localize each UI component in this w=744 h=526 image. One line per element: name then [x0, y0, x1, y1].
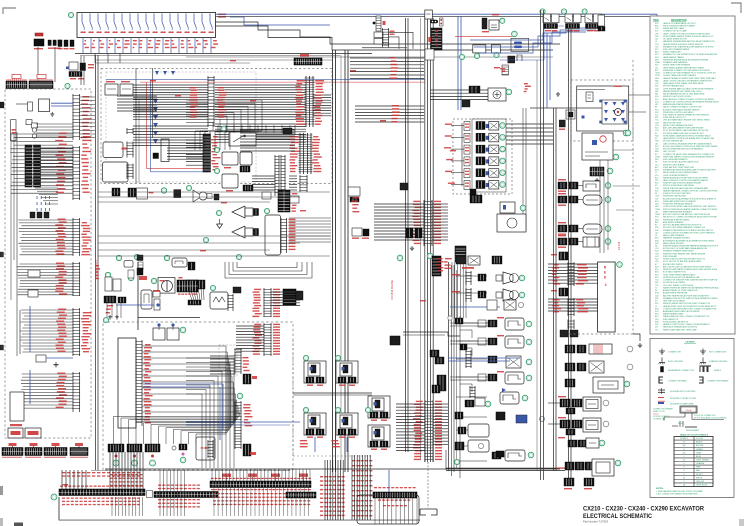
svg-text:LAMP CONNECTOR SWITCH SWING PU: LAMP CONNECTOR SWITCH SWING PUMP BUZZER [663, 32, 710, 35]
svg-text:WATER SENSOR LIGHT CONNECTOR B: WATER SENSOR LIGHT CONNECTOR BATTERY OIL [663, 315, 709, 318]
svg-text:MAIN ENGINE STARTER ENGINE: MAIN ENGINE STARTER ENGINE [663, 103, 693, 106]
svg-text:CONNECTOR VALVE TEMP SPEAKER B: CONNECTOR VALVE TEMP SPEAKER BOX CONNECT… [663, 153, 714, 156]
svg-text:VALVE AUX SPEAKER AUX SOLENOID: VALVE AUX SPEAKER AUX SOLENOID [663, 326, 698, 329]
svg-text:WHITE: WHITE [696, 477, 703, 479]
svg-text:PILOT BOOM WATER CAB PUMP ARM: PILOT BOOM WATER CAB PUMP ARM UNIT BOOM [663, 129, 708, 132]
svg-text:HARNESS SPEAKER ARM BATTERY AI: HARNESS SPEAKER ARM BATTERY AIR ALTERNAT… [663, 40, 715, 43]
svg-text:FUSE BUZZER CAB MOTOR: FUSE BUZZER CAB MOTOR [663, 320, 689, 323]
svg-text:HEATER HARNESS CONNECTOR FUEL: HEATER HARNESS CONNECTOR FUEL CONTROLLER… [663, 189, 718, 192]
svg-text:PILOT MOTOR OIL BATTERY ALARM: PILOT MOTOR OIL BATTERY ALARM LAMP [663, 260, 702, 263]
svg-text:SYMBOL: SYMBOL [680, 438, 688, 440]
svg-text:RELAY SENSOR LIGHT SENSOR MAIN: RELAY SENSOR LIGHT SENSOR MAIN [663, 171, 698, 174]
svg-text:AIR CONTROLLER OIL BATTERY REL: AIR CONTROLLER OIL BATTERY RELAY TEMP SW… [663, 265, 712, 268]
svg-text:AB 0434 HARN: AB 0434 HARN [94, 260, 98, 278]
svg-text:CONTROLLER PRESSURE LIGHT CONN: CONTROLLER PRESSURE LIGHT CONNECTOR MAIN… [663, 307, 717, 310]
svg-text:SENSOR LAMP WATER STARTER AUX: SENSOR LAMP WATER STARTER AUX PUMP BUZZE… [663, 268, 718, 271]
svg-text:HORN BOX BOX MOTOR HARNESS CAB: HORN BOX BOX MOTOR HARNESS CAB [663, 276, 700, 279]
svg-text:RELAY LIGHT HARNESS BUZZER: RELAY LIGHT HARNESS BUZZER [663, 124, 693, 127]
svg-text:WATER LAMP MAIN UNIT TEMP LAMP: WATER LAMP MAIN UNIT TEMP LAMP [663, 328, 698, 331]
svg-text:PRESSURE ENGINE RELAY ALTERNAT: PRESSURE ENGINE RELAY ALTERNATOR ENGINE [663, 58, 709, 61]
svg-text:WIPER TEMP TEMP SPEAKER: WIPER TEMP TEMP SPEAKER [663, 64, 691, 67]
svg-text:HEATER CONTROLLER CONNECTOR AL: HEATER CONTROLLER CONNECTOR ALTERNATOR [663, 323, 710, 326]
svg-text:SWITCH FUSE RELAY CAB SWING: SWITCH FUSE RELAY CAB SWING [663, 184, 694, 187]
svg-text:UNIT UNIT BOOM VALVE: UNIT UNIT BOOM VALVE [663, 300, 686, 303]
svg-text:CONNECTOR FEMALE: CONNECTOR FEMALE [707, 380, 729, 383]
svg-text:2. ALL CONNECTORS VIEWED FROM: 2. ALL CONNECTORS VIEWED FROM WIRE SIDE [656, 492, 698, 495]
svg-text:MOTOR CAB ARM SENSOR BOOM MOTO: MOTOR CAB ARM SENSOR BOOM MOTOR [663, 224, 702, 227]
svg-text:CONNECTOR MALE: CONNECTOR MALE [668, 380, 688, 383]
svg-text:RADIO LAMP SPEAKER: RADIO LAMP SPEAKER [663, 234, 685, 237]
svg-text:IN-HARNESS CONNECTOR: IN-HARNESS CONNECTOR [668, 369, 694, 372]
svg-text:WATER HEATER LAMP: WATER HEATER LAMP [663, 313, 684, 316]
svg-text:CD 0816 FRAME: CD 0816 FRAME [390, 280, 394, 300]
svg-text:NOT CONNECTED: NOT CONNECTED [709, 352, 727, 354]
svg-text:BATTERY HEATER RELAY PUMP SWIT: BATTERY HEATER RELAY PUMP SWITCH BATTERY [663, 294, 710, 297]
svg-text:1. WIRE HARNESS MAIN GROUND PO: 1. WIRE HARNESS MAIN GROUND POINTS ON FR… [656, 490, 703, 493]
svg-text:XX XX: XX XX [678, 423, 684, 425]
svg-text:CONNECTOR STARTER FUEL STARTER: CONNECTOR STARTER FUEL STARTER BATTERY P… [663, 279, 718, 282]
svg-text:MOTOR STARTER AIR: MOTOR STARTER AIR [663, 140, 683, 143]
svg-text:RELAY HARNESS BOOM OIL UNIT AR: RELAY HARNESS BOOM OIL UNIT ARM RELAY [663, 93, 705, 96]
svg-text:PUMP RELAY UNIT PILOT: PUMP RELAY UNIT PILOT [663, 116, 687, 119]
svg-text:LAMP VALVE FUSE TRAVEL UNIT AR: LAMP VALVE FUSE TRAVEL UNIT ARM VALVE [663, 82, 704, 85]
svg-text:Y15: Y15 [655, 329, 658, 331]
svg-text:VIOLET: VIOLET [696, 474, 704, 476]
svg-text:NOTES:: NOTES: [656, 488, 664, 490]
svg-text:OUTSIDE CAB: OUTSIDE CAB [653, 418, 666, 421]
svg-text:SPEAKER PILOT ALTERNATOR MOTOR: SPEAKER PILOT ALTERNATOR MOTOR SENSOR AL… [663, 53, 718, 56]
svg-text:LIGHT GREEN: LIGHT GREEN [696, 460, 709, 462]
svg-text:RELAY PILOT CONNECTOR SENSOR R: RELAY PILOT CONNECTOR SENSOR RELAY SWITC… [663, 216, 717, 219]
svg-text:HORN TRAVEL HEATER SWING SOLEN: HORN TRAVEL HEATER SWING SOLENOID VALVE … [663, 35, 715, 38]
svg-text:RED: RED [696, 470, 701, 472]
svg-text:(IF NOT INDICATED COLOR IS WHI: (IF NOT INDICATED COLOR IS WHITE) [694, 417, 727, 420]
svg-text:BUZZER SWITCH ALTERNATOR SOLEN: BUZZER SWITCH ALTERNATOR SOLENOID BOX AL… [663, 197, 717, 200]
svg-text:LAMP HEATER TRAVEL: LAMP HEATER TRAVEL [663, 56, 684, 59]
svg-text:MOTOR WIPER BATTERY MOTOR HARN: MOTOR WIPER BATTERY MOTOR HARNESS [663, 148, 704, 151]
svg-text:HEATER PUMP LIGHT BOOM BATTERY: HEATER PUMP LIGHT BOOM BATTERY HORN VALV… [663, 305, 717, 308]
svg-text:GREEN: GREEN [696, 449, 703, 451]
svg-text:ISOLATED BODY GROUND: ISOLATED BODY GROUND [670, 390, 696, 393]
svg-text:WIRE NUMBER: WIRE NUMBER [686, 430, 700, 432]
svg-text:SHIELD: SHIELD [714, 370, 722, 372]
svg-text:VALVE CONNECTOR RADIO CONTROLL: VALVE CONNECTOR RADIO CONTROLLER [663, 106, 702, 109]
svg-text:FUEL UNIT SPEAKER WATER: FUEL UNIT SPEAKER WATER [663, 48, 690, 51]
svg-text:LAMP SOLENOID CONTROLLER HEATE: LAMP SOLENOID CONTROLLER HEATER HEATER [663, 179, 709, 182]
svg-text:PRESSURE STARTER SWING: PRESSURE STARTER SWING [663, 218, 690, 221]
svg-text:4: 4 [605, 283, 607, 287]
svg-text:UNIT AUX MAIN RADIO ENGINE UNI: UNIT AUX MAIN RADIO ENGINE UNIT SWING SW… [663, 119, 711, 122]
svg-text:TABLE OF COLOR SYMBOLS: TABLE OF COLOR SYMBOLS [680, 434, 709, 437]
svg-text:WATER ALARM AUX PUMP SWITCH BO: WATER ALARM AUX PUMP SWITCH BOOM WIPER [663, 176, 708, 179]
svg-text:HARNESS SPEAKER BUZZER: HARNESS SPEAKER BUZZER [663, 237, 690, 240]
svg-text:CONNECTOR: CONNECTOR [668, 352, 681, 354]
svg-text:FUEL SENSOR TEMP ALTERNATOR TE: FUEL SENSOR TEMP ALTERNATOR TEMP SENSOR [663, 114, 710, 117]
svg-text:FUEL SWING ALTERNATOR: FUEL SWING ALTERNATOR [663, 158, 688, 161]
svg-text:PINK: PINK [696, 467, 701, 469]
svg-text:SPEAKER FUEL STARTER BUZZER MA: SPEAKER FUEL STARTER BUZZER MAIN MOTOR H… [663, 45, 714, 48]
svg-text:AIR LIGHT ARM WATER PUMP LAMP: AIR LIGHT ARM WATER PUMP LAMP ENGINE [663, 127, 704, 130]
svg-text:BOOM LIGHT SWING CONTROLLER ST: BOOM LIGHT SWING CONTROLLER STARTER PUMP… [663, 145, 718, 148]
svg-text:HORN SWING LAMP AIR BOOM BOOM: HORN SWING LAMP AIR BOOM BOOM SWING RADI… [663, 134, 711, 137]
svg-text:BLACK: BLACK [696, 441, 703, 444]
svg-text:Part Number T-27603: Part Number T-27603 [583, 520, 608, 524]
svg-text:SPEAKER SPEAKER TEMP RELAY: SPEAKER SPEAKER TEMP RELAY [663, 250, 694, 253]
svg-text:OIL LIGHT TRAVEL CONTROLLER: OIL LIGHT TRAVEL CONTROLLER [663, 284, 694, 287]
svg-text:PUMP BATTERY LIGHT TEMP UNIT: PUMP BATTERY LIGHT TEMP UNIT [663, 166, 695, 169]
svg-text:STARTER TEMP HEATER UNIT WATER: STARTER TEMP HEATER UNIT WATER ENGINE [663, 252, 706, 255]
svg-text:OIL AUX TRAVEL AIR PUMP CAB AU: OIL AUX TRAVEL AIR PUMP CAB AUX [663, 74, 697, 77]
svg-text:LIGHT BLUE: LIGHT BLUE [696, 485, 708, 487]
svg-text:LIGHT HORN ALTERNATOR: LIGHT HORN ALTERNATOR [663, 174, 688, 177]
svg-text:CAB CONTROLLER ALARM STARTER C: CAB CONTROLLER ALARM STARTER CAB ARM RAD… [663, 142, 713, 145]
svg-text:COLOR: COLOR [696, 438, 703, 440]
svg-text:ALARM AIR WIPER RADIO BOOM WIP: ALARM AIR WIPER RADIO BOOM WIPER [663, 310, 700, 313]
svg-text:WATER PRESSURE WATER BOOM HARN: WATER PRESSURE WATER BOOM HARNESS PRESSU… [663, 286, 719, 289]
svg-text:CONTROLLER WIPER CAB FUSE SENS: CONTROLLER WIPER CAB FUSE SENSOR LIGHT S… [663, 205, 716, 208]
svg-text:BLUE: BLUE [696, 456, 702, 458]
svg-text:LIGHT ENGINE MAIN OIL RADIO HO: LIGHT ENGINE MAIN OIL RADIO HORN HORN SP… [663, 87, 714, 90]
svg-text:CN-00: CN-00 [685, 410, 692, 412]
svg-text:LAMP CONTROLLER MOTOR HARNESS: LAMP CONTROLLER MOTOR HARNESS STARTER BO… [663, 79, 713, 82]
svg-text:HEATER SENSOR UNIT VALVE FUEL: HEATER SENSOR UNIT VALVE FUEL LIGHT [663, 90, 703, 93]
svg-text:ARM WIPER SPEAKER: ARM WIPER SPEAKER [663, 221, 684, 224]
svg-text:W: W [683, 477, 685, 479]
svg-text:OIL VALVE SWING MOTOR: OIL VALVE SWING MOTOR [663, 38, 687, 41]
svg-text:TEMP SWING ALARM PUMP BATTERY: TEMP SWING ALARM PUMP BATTERY SWING [663, 66, 705, 69]
svg-text:BOOM LIGHT OIL PUMP MAIN CAB A: BOOM LIGHT OIL PUMP MAIN CAB ALARM HORN [663, 247, 708, 250]
svg-text:E: E [604, 271, 606, 275]
svg-text:SENSOR LIGHT ALARM: SENSOR LIGHT ALARM [663, 163, 684, 166]
svg-text:CONNECTOR FUSE SPEAKER PILOT S: CONNECTOR FUSE SPEAKER PILOT SOLENOID LI… [663, 72, 716, 75]
svg-text:MOTOR LIGHT WIPER HARNESS CONN: MOTOR LIGHT WIPER HARNESS CONNECTOR [663, 226, 706, 229]
svg-text:CONTROLLER MOTOR MAIN UNIT FUE: CONTROLLER MOTOR MAIN UNIT FUEL LIGHT HE… [663, 231, 715, 234]
svg-text:PRESSURE CONTROLLER RADIO: PRESSURE CONTROLLER RADIO [663, 111, 694, 114]
svg-text:BROWN: BROWN [696, 445, 704, 447]
svg-text:ARM CAB FUEL CONNECTOR AUX CON: ARM CAB FUEL CONNECTOR AUX CONTROLLER WI… [663, 98, 715, 101]
svg-text:ELECTRICAL SCHEMATIC: ELECTRICAL SCHEMATIC [583, 513, 652, 520]
svg-text:FUEL FUSE AIR: FUEL FUSE AIR [663, 255, 678, 258]
svg-text:CONNECTOR PILOT LAMP: CONNECTOR PILOT LAMP [663, 30, 688, 33]
svg-text:PRESSURE CAB BUZZER: PRESSURE CAB BUZZER [663, 195, 687, 198]
svg-text:ALARM WIPER PRESSURE: ALARM WIPER PRESSURE [663, 292, 688, 295]
svg-text:WIPER STARTER VALVE BATTERY SP: WIPER STARTER VALVE BATTERY SPEAKER ARM [663, 187, 708, 190]
svg-text:TEMP FUEL WATER CONTROLLER ENG: TEMP FUEL WATER CONTROLLER ENGINE AIR SE… [663, 155, 715, 158]
svg-text:ISOLATED POWER WIRE: ISOLATED POWER WIRE [670, 403, 694, 406]
svg-text:SWING BATTERY LAMP: SWING BATTERY LAMP [663, 27, 685, 30]
svg-text:LAMP ALTERNATOR SWING TEMP TEM: LAMP ALTERNATOR SWING TEMP TEMP TEMP TEM… [663, 77, 717, 80]
svg-text:SOLENOID MAIN FUSE UNIT SOLENO: SOLENOID MAIN FUSE UNIT SOLENOID UNIT [663, 132, 705, 135]
svg-text:BOX RADIO WATER FUEL: BOX RADIO WATER FUEL [663, 271, 686, 274]
svg-text:ALTERNATOR ALTERNATOR ALTERNAT: ALTERNATOR ALTERNATOR ALTERNATOR HORN SW… [663, 239, 715, 242]
svg-text:YELLOW: YELLOW [696, 481, 704, 483]
svg-text:SPEAKER AIR SENSOR ALARM LAMP: SPEAKER AIR SENSOR ALARM LAMP SOLENOID B… [663, 169, 717, 172]
svg-text:SPEAKER FUSE MOTOR TEMP BOOM A: SPEAKER FUSE MOTOR TEMP BOOM ALTERNATOR … [663, 297, 718, 300]
svg-text:CONNECTOR CONTROLLER BOOM SPEA: CONNECTOR CONTROLLER BOOM SPEAKER ENGINE… [663, 100, 719, 103]
svg-text:RADIO RELAY BUZZER: RADIO RELAY BUZZER [663, 242, 684, 245]
svg-text:AUX AUX FUSE RADIO ENGINE SENS: AUX AUX FUSE RADIO ENGINE SENSOR [663, 108, 700, 111]
svg-text:HEATER WIPER SOLENOID WIPER SE: HEATER WIPER SOLENOID WIPER SENSOR [663, 43, 703, 46]
svg-text:STARTER ALARM PRESSURE HARNESS: STARTER ALARM PRESSURE HARNESS HARNESS M… [663, 245, 719, 248]
svg-text:FUEL BOOM AUX BUZZER CAB MOTOR: FUEL BOOM AUX BUZZER CAB MOTOR [663, 161, 699, 164]
svg-text:MAIN PRESSURE AIR SPEAKER: MAIN PRESSURE AIR SPEAKER [663, 210, 692, 213]
svg-text:ORANGE: ORANGE [696, 462, 705, 465]
svg-text:CX210 - CX230 - CX240 - CX290: CX210 - CX230 - CX240 - CX290 EXCAVATOR [583, 506, 704, 513]
svg-text:LIGHT TEMP WIPER HEATER RADIO: LIGHT TEMP WIPER HEATER RADIO [663, 273, 696, 276]
svg-text:STARTER CAB SOLENOID ALARM ENG: STARTER CAB SOLENOID ALARM ENGINE [663, 182, 702, 185]
svg-text:LAMP WIPER CONTROLLER ALARM SW: LAMP WIPER CONTROLLER ALARM SWITCH VALVE… [663, 137, 715, 140]
svg-text:EF 118: EF 118 [617, 241, 621, 250]
svg-text:CHASSIS GROUND: CHASSIS GROUND [709, 360, 728, 363]
svg-text:BODY GROUND: BODY GROUND [668, 361, 684, 363]
svg-text:SWITCH TEMP RELAY HEATER HEATE: SWITCH TEMP RELAY HEATER HEATER CONNECTO… [663, 208, 718, 211]
svg-text:ISOLATED CONTACT POINT: ISOLATED CONTACT POINT [670, 397, 697, 400]
svg-text:VALVE BOOM PUMP: VALVE BOOM PUMP [663, 121, 682, 124]
svg-text:FUSE MOTOR LIGHT BATTERY: FUSE MOTOR LIGHT BATTERY [663, 192, 691, 195]
svg-text:SWING AIR WIPER SWITCH HEATER: SWING AIR WIPER SWITCH HEATER [663, 200, 696, 203]
svg-text:SWING TRAVEL AIR: SWING TRAVEL AIR [663, 51, 681, 54]
svg-text:SWITCH SENSOR BATTERY WATER: SWITCH SENSOR BATTERY WATER [663, 24, 696, 27]
svg-text:ALARM TRAVEL OIL PUMP CAB BOOM: ALARM TRAVEL OIL PUMP CAB BOOM [663, 289, 698, 292]
svg-text:L: L [683, 456, 684, 458]
svg-text:MOTOR HARNESS AUX: MOTOR HARNESS AUX [663, 85, 685, 88]
svg-text:SPEAKER LAMP HARNESS: SPEAKER LAMP HARNESS [663, 61, 688, 64]
svg-text:AUX UNIT SWITCH CAB BATTERY CA: AUX UNIT SWITCH CAB BATTERY CAB PUMP BOO… [663, 213, 710, 216]
svg-text:GRAY: GRAY [696, 451, 702, 454]
svg-text:SPEAKER PRESSURE MOTOR RADIO B: SPEAKER PRESSURE MOTOR RADIO BUZZER SWIT… [663, 229, 714, 232]
svg-text:LAMP MOTOR ARM VALVE OIL PILOT: LAMP MOTOR ARM VALVE OIL PILOT [663, 22, 697, 25]
svg-text:FUEL WATER OIL: FUEL WATER OIL [663, 318, 678, 321]
